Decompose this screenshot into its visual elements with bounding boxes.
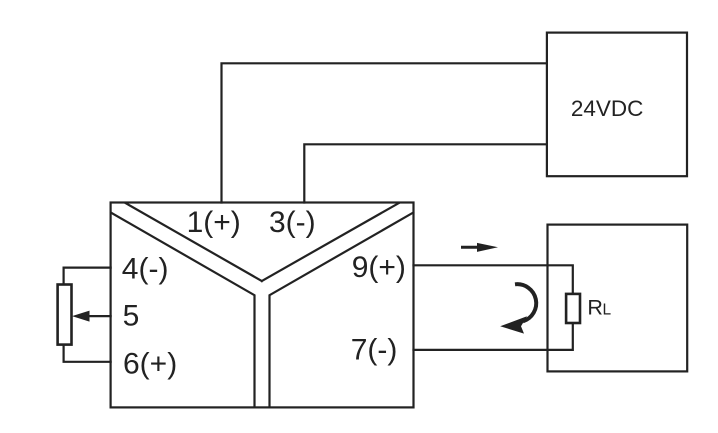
wire terminal1 to 24VDC — [222, 63, 547, 202]
wire terminal9 to load — [414, 265, 573, 294]
power supply box 24VDC — [547, 33, 687, 177]
potentiometer body RP — [58, 285, 72, 345]
current loop arrowhead — [500, 316, 527, 333]
svg-text:9(+): 9(+) — [352, 251, 406, 284]
svg-text:6(+): 6(+) — [123, 347, 177, 380]
load box — [548, 225, 688, 372]
divider Y lower-left line and left vertical — [111, 213, 255, 408]
divider Y upper-left line — [126, 203, 262, 281]
current direction arrow (straight) — [461, 243, 498, 252]
svg-text:7(-): 7(-) — [351, 334, 398, 367]
divider Y upper-right line — [262, 203, 399, 281]
divider Y lower-right line and right vertical — [270, 213, 414, 408]
wire terminal3 to 24VDC — [304, 144, 547, 202]
svg-text:1(+): 1(+) — [187, 206, 241, 239]
svg-text:L: L — [603, 301, 612, 318]
wire terminal6 to potentiometer — [64, 345, 111, 362]
load resistor RL body — [566, 294, 580, 323]
svg-text:5: 5 — [123, 300, 140, 333]
wire terminal4 to potentiometer — [64, 268, 111, 285]
wire terminal7 to load — [414, 323, 573, 350]
wire terminal5 wiper — [88, 315, 111, 317]
svg-text:4(-): 4(-) — [122, 253, 169, 286]
isolator main box U1 — [111, 203, 414, 408]
svg-text:24VDC: 24VDC — [571, 96, 644, 121]
current loop arrow (curved) — [515, 284, 536, 321]
svg-text:3(-): 3(-) — [269, 206, 316, 239]
wiper arrowhead — [72, 311, 90, 322]
svg-text:R: R — [587, 295, 603, 319]
